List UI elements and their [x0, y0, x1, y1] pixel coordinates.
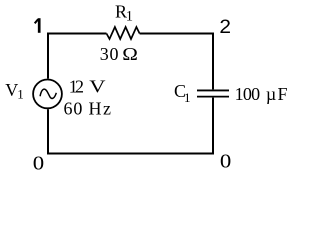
- svg-text:1: 1: [184, 90, 191, 105]
- svg-text:µF: µF: [266, 84, 289, 104]
- svg-text:1: 1: [126, 9, 133, 25]
- svg-text:2: 2: [75, 77, 84, 97]
- svg-text:3: 3: [100, 44, 109, 64]
- svg-text:2: 2: [219, 17, 231, 38]
- svg-text:V: V: [89, 77, 106, 96]
- svg-text:V: V: [5, 80, 18, 100]
- svg-text:0: 0: [33, 152, 44, 174]
- svg-text:1: 1: [17, 86, 24, 101]
- svg-text:Hz: Hz: [89, 99, 113, 119]
- svg-text:Ω: Ω: [122, 45, 138, 64]
- svg-text:0: 0: [110, 44, 119, 64]
- svg-text:100: 100: [235, 84, 261, 104]
- svg-text:60: 60: [64, 99, 84, 119]
- svg-text:0: 0: [220, 150, 231, 172]
